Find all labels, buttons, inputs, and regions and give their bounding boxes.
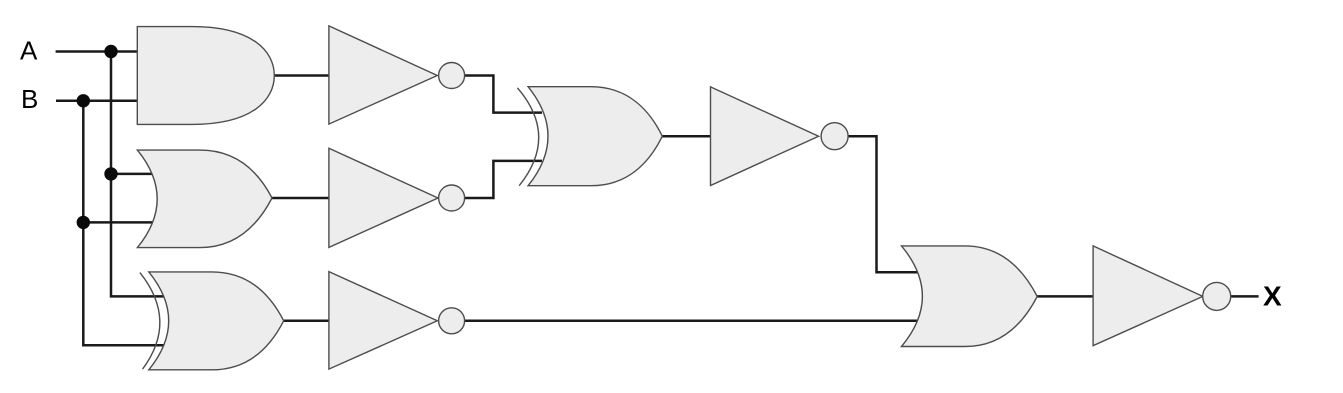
wire NOT U4 bubble to XOR U7 top input bbox=[465, 76, 542, 113]
wire A input bbox=[56, 50, 138, 53]
XOR gate U7 body bbox=[528, 87, 662, 186]
wire branch to OR U2 top input bbox=[111, 173, 153, 176]
wire AND U1 output to NOT U4 bbox=[274, 74, 329, 77]
NOT gate U8 triangle bbox=[711, 87, 819, 186]
NOT gate U5 bubble bbox=[439, 185, 465, 211]
wire NOT U5 bubble to XOR U7 bottom input bbox=[465, 161, 542, 198]
wire B input bbox=[56, 100, 137, 103]
svg-text:B: B bbox=[21, 84, 38, 114]
NOT gate U8 bubble bbox=[821, 123, 848, 150]
svg-text:A: A bbox=[20, 35, 38, 65]
XOR gate U3 body bbox=[149, 272, 284, 370]
OR gate U2 bbox=[137, 150, 272, 248]
svg-text:X: X bbox=[1263, 281, 1282, 312]
OR gate U9 bbox=[902, 246, 1038, 347]
XOR gate U7 input arc bbox=[517, 88, 538, 186]
NOT gate U6 triangle bbox=[329, 272, 437, 370]
NOT gate U5 triangle bbox=[329, 148, 438, 247]
AND gate U1 bbox=[137, 27, 274, 125]
NOT gate U6 bubble bbox=[439, 308, 465, 334]
wire OR U2 output to NOT U5 bbox=[272, 197, 329, 200]
junction dot node B2 bbox=[77, 216, 90, 229]
wire XOR U7 output to NOT U8 bbox=[662, 135, 710, 138]
NOT gate U4 triangle bbox=[329, 26, 437, 124]
wire B vertical branch to XOR U3 bottom input bbox=[83, 101, 164, 345]
wire branch to OR U2 bottom input bbox=[83, 221, 152, 224]
wire NOT U10 bubble to output X bbox=[1231, 295, 1259, 298]
wire OR U9 output to NOT U10 bbox=[1037, 295, 1093, 298]
NOT gate U10 bubble bbox=[1203, 282, 1231, 310]
wire NOT U6 bubble to OR U9 bottom input bbox=[465, 320, 918, 323]
NOT gate U4 bubble bbox=[439, 63, 465, 89]
wire XOR U3 output to NOT U6 bbox=[284, 320, 329, 323]
XOR gate U3 input arc bbox=[140, 273, 160, 370]
wire NOT U8 bubble to OR U9 top input bbox=[848, 136, 917, 272]
junction dot node A1 bbox=[104, 45, 117, 58]
NOT gate U10 triangle bbox=[1093, 246, 1203, 346]
junction dot node A2 bbox=[104, 167, 117, 180]
junction dot node B1 bbox=[77, 94, 90, 107]
wire A vertical branch to XOR U3 top input bbox=[111, 52, 164, 297]
